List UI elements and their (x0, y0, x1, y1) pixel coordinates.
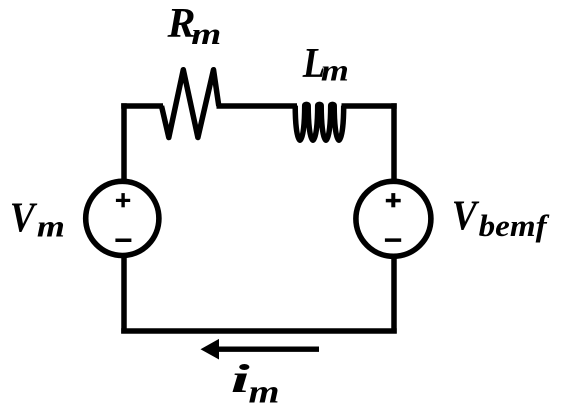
wire left vertical upper (121, 103, 127, 181)
svg-text:m: m (249, 374, 280, 408)
label Vm (10, 195, 65, 243)
wire top-left segment (121, 103, 163, 109)
voltage source Vm circle (86, 181, 159, 255)
minus sign of Vm (115, 239, 131, 243)
svg-text:bemf: bemf (479, 208, 550, 243)
wire left vertical lower (121, 257, 127, 334)
wire right vertical lower (391, 257, 397, 334)
label Lm (302, 41, 349, 87)
inductor Lm coil (295, 104, 344, 140)
wire top-right segment (342, 103, 397, 109)
wire bottom segment (121, 328, 397, 334)
svg-text:i: i (231, 356, 250, 401)
label Rm (167, 1, 222, 51)
svg-text:V: V (452, 194, 480, 240)
voltage source Vbemf circle (356, 181, 431, 256)
label im (231, 356, 280, 408)
plus sign of Vbemf (386, 193, 401, 207)
plus sign of Vm (116, 193, 130, 207)
svg-text:m: m (191, 16, 221, 51)
current arrow im (201, 339, 320, 360)
svg-text:m: m (321, 52, 349, 87)
svg-text:V: V (10, 195, 38, 241)
minus sign of Vbemf (385, 238, 401, 242)
label Vbemf (452, 194, 550, 243)
resistor Rm zigzag (162, 70, 219, 138)
wire top-middle segment (217, 103, 298, 109)
svg-text:m: m (37, 209, 65, 244)
wire right vertical upper (391, 103, 397, 181)
